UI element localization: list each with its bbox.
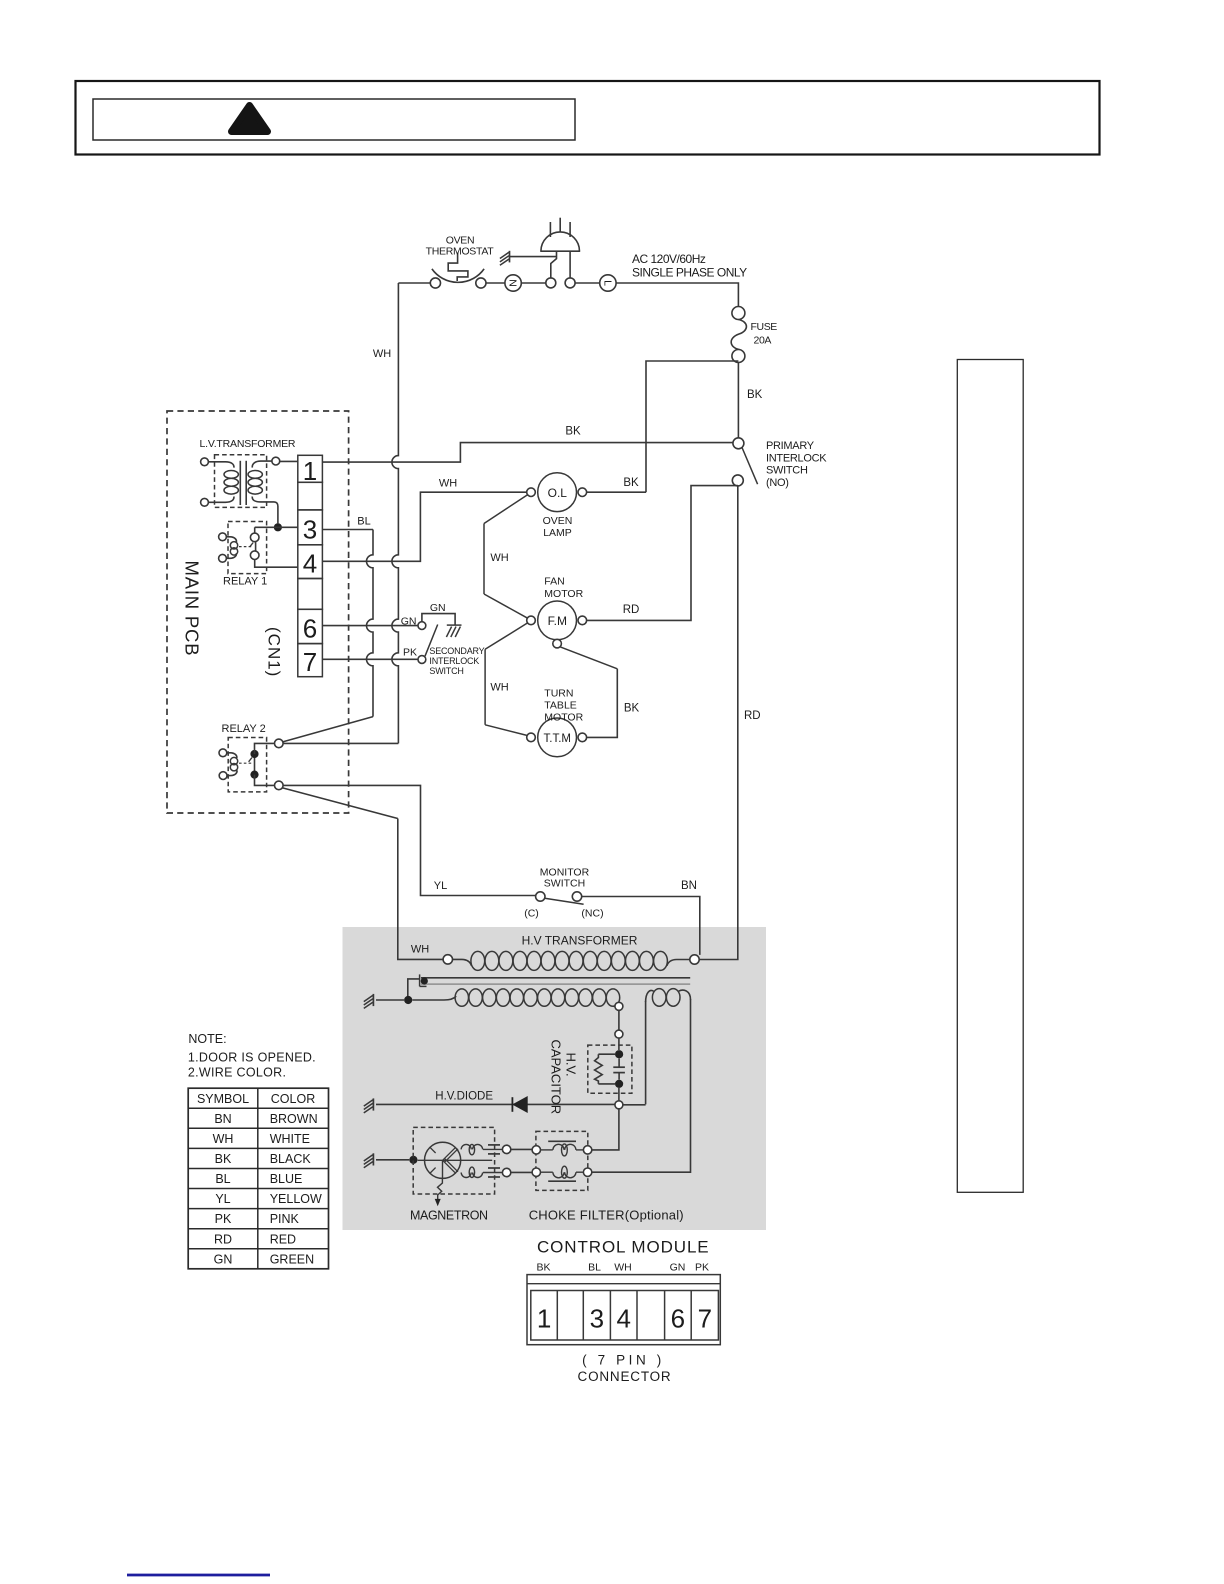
wire filament right to choke lower bbox=[592, 999, 691, 1172]
node junction pin3 bbox=[274, 523, 282, 531]
wire RY2 to YL bbox=[283, 785, 535, 895]
wire ground to secondary bbox=[376, 999, 404, 1001]
svg-text:F.M: F.M bbox=[548, 614, 567, 628]
relay RY2 upper terminal bbox=[255, 743, 275, 754]
svg-text:3: 3 bbox=[303, 514, 317, 544]
svg-text:MAGNETRON: MAGNETRON bbox=[410, 1209, 488, 1223]
transformer T1 primary winding bbox=[208, 462, 234, 468]
wire fan bottom to turntable BK bbox=[560, 647, 617, 669]
secondary interlock ground bbox=[447, 624, 462, 626]
wire WH left feeder bbox=[392, 283, 399, 743]
transformer T1 core bbox=[239, 461, 241, 505]
svg-text:6: 6 bbox=[671, 1303, 685, 1333]
svg-text:7: 7 bbox=[698, 1303, 712, 1333]
transformer T1 L.V. dashed box bbox=[215, 455, 267, 508]
capacitor C1 plates bbox=[618, 1058, 620, 1067]
magnetron antenna bbox=[438, 1178, 443, 1200]
wire RY2 to BL bbox=[283, 717, 373, 742]
svg-text:3: 3 bbox=[590, 1303, 604, 1333]
svg-text:TURN: TURN bbox=[544, 688, 573, 700]
svg-text:L: L bbox=[602, 280, 614, 286]
svg-text:CHOKE FILTER(Optional): CHOKE FILTER(Optional) bbox=[529, 1208, 684, 1223]
svg-text:BN: BN bbox=[681, 880, 697, 892]
magnetron terminals bbox=[502, 1145, 510, 1153]
svg-text:1.DOOR IS OPENED.: 1.DOOR IS OPENED. bbox=[188, 1050, 316, 1064]
wire capacitor node to choke upper bbox=[592, 1109, 619, 1150]
svg-text:SWITCH: SWITCH bbox=[766, 465, 808, 477]
svg-text:GN: GN bbox=[670, 1262, 686, 1274]
relay RY1 coil terminals bbox=[219, 533, 227, 541]
wire magnetron to choke lower bbox=[511, 1171, 532, 1173]
svg-text:20A: 20A bbox=[754, 335, 772, 347]
svg-text:AC 120V/60Hz: AC 120V/60Hz bbox=[632, 252, 706, 266]
wire BK bus bbox=[322, 443, 733, 463]
svg-text:LAMP: LAMP bbox=[543, 527, 572, 539]
AC plug bbox=[541, 232, 580, 251]
wire L to fuse corner bbox=[616, 283, 738, 307]
wire monitor to HV BN bbox=[582, 897, 700, 955]
wire fuse to primary interlock bbox=[737, 363, 739, 438]
svg-text:CONTROL MODULE: CONTROL MODULE bbox=[537, 1238, 710, 1257]
svg-text:RD: RD bbox=[744, 710, 761, 722]
svg-text:PK: PK bbox=[403, 647, 417, 659]
svg-text:O.L: O.L bbox=[548, 486, 568, 500]
node capacitor top bbox=[615, 1050, 623, 1058]
svg-text:(CN1): (CN1) bbox=[265, 627, 284, 677]
wire BL feeder down bbox=[367, 530, 374, 717]
svg-text:GN: GN bbox=[401, 616, 417, 628]
svg-text:H.V TRANSFORMER: H.V TRANSFORMER bbox=[522, 933, 638, 947]
svg-text:OVEN: OVEN bbox=[543, 515, 573, 527]
svg-text:N: N bbox=[506, 279, 518, 287]
svg-text:PRIMARY: PRIMARY bbox=[766, 440, 815, 452]
svg-text:GN: GN bbox=[214, 1252, 233, 1266]
relay RY2 coil bbox=[227, 753, 237, 758]
svg-text:TABLE: TABLE bbox=[544, 700, 576, 712]
relay RY2 coil terminals bbox=[219, 749, 227, 757]
relay RY1 coil bbox=[226, 537, 236, 542]
svg-text:4: 4 bbox=[616, 1303, 630, 1333]
wire fuse branch to oven lamp bbox=[646, 361, 738, 492]
svg-text:H.V.DIODE: H.V.DIODE bbox=[435, 1091, 493, 1103]
wire magnetron to choke upper bbox=[511, 1148, 532, 1150]
svg-text:7: 7 bbox=[303, 647, 317, 677]
svg-text:H.V.: H.V. bbox=[564, 1053, 579, 1077]
svg-text:GN: GN bbox=[430, 602, 446, 614]
inline connector to capacitor bbox=[618, 1010, 620, 1030]
svg-text:WH: WH bbox=[490, 682, 508, 694]
svg-text:2.WIRE COLOR.: 2.WIRE COLOR. bbox=[188, 1066, 286, 1080]
fan motor F.M bbox=[527, 616, 536, 625]
svg-text:BK: BK bbox=[624, 703, 640, 715]
svg-text:FAN: FAN bbox=[544, 576, 564, 588]
svg-text:WH: WH bbox=[439, 478, 457, 490]
wire thermostat to N bbox=[486, 282, 505, 284]
wire pin3 internal bbox=[255, 526, 298, 528]
svg-text:BK: BK bbox=[747, 389, 763, 401]
monitor switch bbox=[536, 892, 545, 901]
svg-text:YELLOW: YELLOW bbox=[270, 1192, 322, 1206]
svg-text:RELAY 2: RELAY 2 bbox=[222, 723, 266, 735]
wire diode line bbox=[376, 1103, 615, 1105]
empty side box bbox=[957, 360, 1023, 1193]
transformer T2 H.V. primary terminal left bbox=[443, 955, 452, 964]
svg-text:BK: BK bbox=[536, 1262, 550, 1274]
wire pin4 to oven lamp WH bbox=[322, 492, 526, 561]
magnetron V1 dashed box bbox=[413, 1127, 494, 1194]
svg-text:MAIN PCB: MAIN PCB bbox=[182, 561, 203, 657]
wire T1 to pin1 bbox=[280, 460, 298, 462]
svg-text:(NC): (NC) bbox=[581, 908, 603, 920]
svg-text:YL: YL bbox=[215, 1192, 230, 1206]
transformer T2 H.V. primary terminal right bbox=[690, 955, 699, 964]
magnetron heater lower bbox=[461, 1173, 471, 1178]
wire color table grid bbox=[188, 1088, 328, 1269]
wire plug ground lead bbox=[510, 256, 557, 258]
connector CN1 body bbox=[298, 455, 323, 482]
svg-text:THERMOSTAT: THERMOSTAT bbox=[426, 245, 495, 257]
transformer T1 secondary winding bbox=[248, 471, 262, 479]
svg-text:MOTOR: MOTOR bbox=[544, 588, 583, 600]
svg-text:PK: PK bbox=[695, 1262, 709, 1274]
svg-text:CAPACITOR: CAPACITOR bbox=[549, 1040, 564, 1115]
svg-text:4: 4 bbox=[303, 549, 317, 579]
wire WH bus fan to turntable bbox=[485, 623, 527, 649]
svg-text:SECONDARY: SECONDARY bbox=[429, 646, 484, 656]
svg-text:FUSE: FUSE bbox=[751, 321, 778, 333]
svg-text:SWITCH: SWITCH bbox=[544, 878, 585, 890]
svg-text:CONNECTOR: CONNECTOR bbox=[578, 1369, 672, 1384]
node diode line terminal bbox=[615, 1101, 623, 1109]
connector 7-pin cells bbox=[531, 1291, 719, 1341]
wire GN to ground bbox=[422, 614, 455, 625]
svg-text:BK: BK bbox=[623, 477, 639, 489]
svg-text:GREEN: GREEN bbox=[270, 1252, 314, 1266]
relay RY2 contact bbox=[254, 754, 256, 775]
svg-text:1: 1 bbox=[303, 456, 317, 486]
H.V. ground 3 bbox=[372, 1153, 374, 1165]
svg-text:( 7 PIN ): ( 7 PIN ) bbox=[582, 1353, 665, 1368]
svg-text:RED: RED bbox=[270, 1232, 296, 1246]
neutral terminal N bbox=[505, 275, 521, 291]
warning banner outer box bbox=[76, 81, 1100, 155]
wire ground to magnetron bbox=[376, 1159, 409, 1161]
resistor R1 bleed bbox=[598, 1053, 615, 1055]
wire diode line right bbox=[623, 1104, 646, 1106]
node junction HV ground bbox=[404, 996, 412, 1004]
wire pin7 PK bbox=[322, 658, 417, 660]
secondary interlock switch blade bbox=[425, 625, 438, 657]
svg-text:RD: RD bbox=[623, 604, 640, 616]
relay RY1 contact bbox=[254, 527, 256, 533]
svg-text:BK: BK bbox=[215, 1152, 232, 1166]
svg-text:COLOR: COLOR bbox=[271, 1092, 315, 1106]
wire oven lamp right bbox=[587, 491, 646, 493]
svg-text:NOTE:: NOTE: bbox=[188, 1032, 226, 1046]
svg-text:BN: BN bbox=[214, 1112, 231, 1126]
transformer T1 terminals left bbox=[201, 458, 209, 466]
relay RY2 lower terminal bbox=[255, 775, 275, 786]
capacitor C1 H.V. dashed box bbox=[588, 1045, 632, 1093]
transformer T2 H.V. primary winding bbox=[453, 959, 472, 965]
wire top AC line left segment bbox=[398, 282, 430, 284]
svg-text:SINGLE PHASE ONLY: SINGLE PHASE ONLY bbox=[632, 265, 747, 279]
high voltage section background bbox=[343, 927, 767, 1230]
svg-text:RD: RD bbox=[214, 1232, 232, 1246]
oven lamp O.L bbox=[527, 488, 536, 497]
choke filter dashed box bbox=[536, 1131, 588, 1190]
svg-text:6: 6 bbox=[303, 614, 317, 644]
transformer T2 secondary winding bbox=[444, 996, 456, 1000]
secondary interlock switch GN terminal bbox=[418, 622, 426, 630]
turn table motor T.T.M bbox=[527, 733, 536, 742]
H.V. ground 1 bbox=[372, 994, 374, 1006]
line terminal L bbox=[600, 275, 616, 291]
svg-text:WH: WH bbox=[614, 1262, 632, 1274]
blue footer line bbox=[127, 1574, 270, 1577]
svg-text:WH: WH bbox=[411, 944, 429, 956]
svg-text:BL: BL bbox=[215, 1172, 230, 1186]
svg-text:BL: BL bbox=[588, 1262, 601, 1274]
wire WH bus lamp to fan bbox=[484, 495, 528, 524]
svg-text:BK: BK bbox=[565, 426, 581, 438]
transformer T2 secondary terminal bbox=[615, 1002, 623, 1010]
svg-text:1: 1 bbox=[537, 1303, 551, 1333]
wire RY1 to pin4 bbox=[255, 560, 298, 568]
fuse F1 20A bbox=[732, 307, 745, 320]
relay RY1 dashed box bbox=[228, 522, 267, 574]
svg-text:(C): (C) bbox=[524, 908, 539, 920]
svg-text:BL: BL bbox=[357, 516, 370, 528]
svg-text:SYMBOL: SYMBOL bbox=[197, 1092, 249, 1106]
svg-text:INTERLOCK: INTERLOCK bbox=[766, 452, 827, 464]
H.V. ground 2 bbox=[372, 1098, 374, 1110]
primary interlock switch (NO) bbox=[733, 438, 744, 449]
node magnetron ground bbox=[409, 1156, 417, 1164]
wire pin6 GN bbox=[322, 625, 417, 627]
wire interlock to fan motor bbox=[587, 486, 738, 621]
transformer T1 output terminal bbox=[272, 457, 280, 465]
warning banner inner box bbox=[93, 99, 575, 140]
connector 7-pin outer shell bbox=[527, 1275, 720, 1345]
svg-text:RELAY 1: RELAY 1 bbox=[223, 576, 267, 588]
svg-text:WH: WH bbox=[373, 348, 391, 360]
transformer T2 core bbox=[421, 977, 690, 979]
magnetron heater upper bbox=[461, 1144, 471, 1149]
wire pin3 BL bbox=[322, 529, 373, 531]
svg-text:INTERLOCK: INTERLOCK bbox=[429, 656, 479, 666]
wire core ground bbox=[408, 979, 420, 1000]
warning triangle bbox=[232, 106, 268, 132]
svg-text:BLACK: BLACK bbox=[270, 1152, 312, 1166]
svg-text:T.T.M: T.T.M bbox=[544, 733, 571, 745]
svg-text:SWITCH: SWITCH bbox=[429, 666, 463, 676]
svg-text:MOTOR: MOTOR bbox=[544, 712, 583, 724]
relay RY2 dashed box bbox=[228, 738, 266, 792]
magnetron V1 tube bbox=[425, 1142, 461, 1178]
svg-text:WH: WH bbox=[490, 552, 508, 564]
main PCB dashed box bbox=[167, 411, 349, 813]
plug ground symbol bbox=[509, 251, 511, 263]
node capacitor bottom bbox=[615, 1080, 623, 1088]
wire capacitor to diode node bbox=[618, 1088, 620, 1101]
wire RY2 to WH feeder bbox=[283, 742, 398, 744]
svg-text:YL: YL bbox=[434, 880, 447, 892]
svg-text:BROWN: BROWN bbox=[270, 1112, 318, 1126]
svg-text:WHITE: WHITE bbox=[270, 1132, 310, 1146]
wire RY2 to HV transformer WH bbox=[283, 788, 398, 819]
svg-text:BLUE: BLUE bbox=[270, 1172, 303, 1186]
oven thermostat bbox=[430, 278, 440, 288]
wire RD feeder down right side bbox=[699, 486, 738, 960]
svg-text:(NO): (NO) bbox=[766, 477, 789, 489]
secondary interlock switch PK terminal bbox=[418, 656, 426, 664]
wire N to plug left blade bbox=[521, 282, 545, 284]
wire junction to secondary winding bbox=[412, 999, 444, 1001]
choke L2 lower bbox=[532, 1168, 540, 1176]
choke L1 upper bbox=[532, 1146, 540, 1154]
diode D1 H.V. bbox=[513, 1097, 527, 1112]
svg-text:PINK: PINK bbox=[270, 1212, 300, 1226]
wire filament left to diode line bbox=[645, 1001, 647, 1104]
transformer T2 filament winding bbox=[646, 990, 654, 1002]
svg-text:WH: WH bbox=[213, 1132, 234, 1146]
svg-text:L.V.TRANSFORMER: L.V.TRANSFORMER bbox=[200, 438, 296, 450]
svg-text:PK: PK bbox=[215, 1212, 232, 1226]
wire plug right blade to L bbox=[575, 282, 600, 284]
